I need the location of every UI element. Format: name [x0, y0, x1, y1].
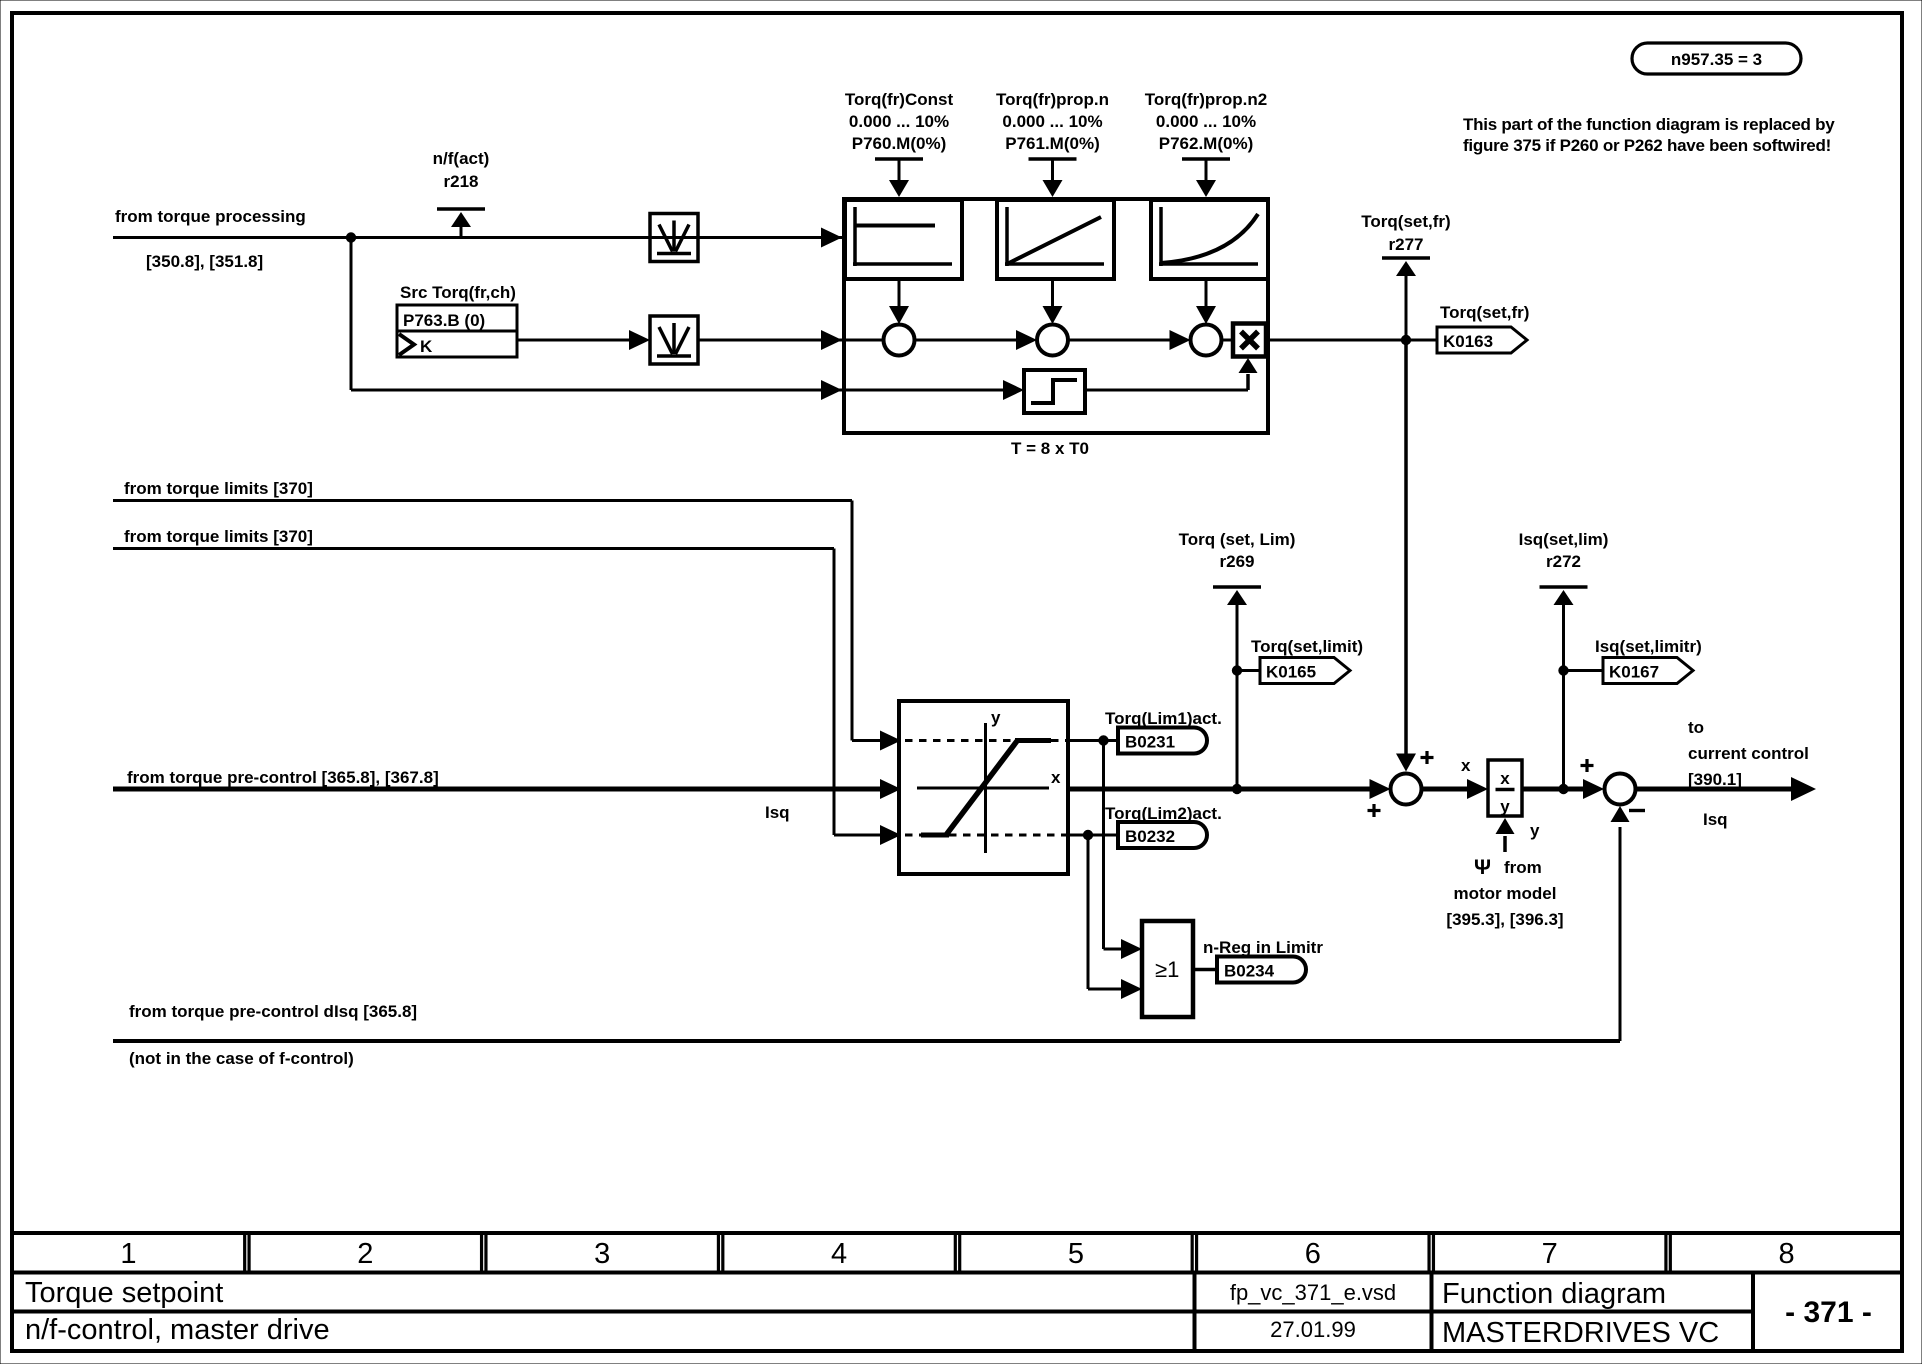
svg-text:P762.M(0%): P762.M(0%) [1159, 134, 1253, 153]
svg-text:P761.M(0%): P761.M(0%) [1005, 134, 1099, 153]
svg-text:from torque limits [370]: from torque limits [370] [124, 527, 313, 546]
svg-text:n/f(act): n/f(act) [433, 149, 490, 168]
svg-text:r269: r269 [1220, 552, 1255, 571]
svg-text:to: to [1688, 718, 1704, 737]
svg-text:r218: r218 [444, 172, 479, 191]
svg-text:x: x [1500, 769, 1510, 788]
svg-text:from torque pre-control [365.8: from torque pre-control [365.8], [367.8] [127, 768, 439, 787]
svg-text:P763.B (0): P763.B (0) [403, 311, 485, 330]
svg-text:Torq (set, Lim): Torq (set, Lim) [1179, 530, 1296, 549]
svg-text:K0165: K0165 [1266, 663, 1316, 682]
svg-text:B0232: B0232 [1125, 827, 1175, 846]
svg-text:[350.8], [351.8]: [350.8], [351.8] [146, 252, 263, 271]
svg-text:r277: r277 [1389, 235, 1424, 254]
svg-text:[390.1]: [390.1] [1688, 770, 1742, 789]
svg-text:from torque limits [370]: from torque limits [370] [124, 479, 313, 498]
svg-text:Ψ: Ψ [1474, 856, 1491, 879]
svg-text:K: K [420, 337, 433, 356]
svg-text:from torque pre-control dIsq [: from torque pre-control dIsq [365.8] [129, 1002, 417, 1021]
svg-text:5: 5 [1068, 1238, 1084, 1270]
svg-text:MASTERDRIVES VC: MASTERDRIVES VC [1442, 1317, 1719, 1349]
svg-text:Torq(set,limit): Torq(set,limit) [1251, 637, 1363, 656]
svg-text:0.000 ... 10%: 0.000 ... 10% [1002, 112, 1102, 131]
svg-text:fp_vc_371_e.vsd: fp_vc_371_e.vsd [1230, 1280, 1396, 1305]
svg-text:Isq: Isq [765, 803, 790, 822]
svg-text:y: y [1530, 821, 1540, 840]
svg-text:from torque processing: from torque processing [115, 207, 306, 226]
svg-text:n/f-control, master drive: n/f-control, master drive [25, 1314, 330, 1346]
svg-text:n-Reg in Limitr: n-Reg in Limitr [1203, 938, 1323, 957]
svg-text:Src Torq(fr,ch): Src Torq(fr,ch) [400, 283, 516, 302]
svg-text:3: 3 [594, 1238, 610, 1270]
svg-text:0.000 ... 10%: 0.000 ... 10% [849, 112, 949, 131]
svg-text:Isq(set,limitr): Isq(set,limitr) [1595, 637, 1702, 656]
svg-text:Isq: Isq [1703, 810, 1728, 829]
svg-text:- 371 -: - 371 - [1785, 1296, 1872, 1329]
svg-text:Torq(Lim1)act.: Torq(Lim1)act. [1105, 709, 1222, 728]
svg-text:from: from [1504, 858, 1542, 877]
svg-text:K0167: K0167 [1609, 663, 1659, 682]
svg-text:Torq(fr)prop.n2: Torq(fr)prop.n2 [1145, 90, 1267, 109]
svg-text:P760.M(0%): P760.M(0%) [852, 134, 946, 153]
svg-text:y: y [991, 708, 1001, 727]
svg-text:n957.35 = 3: n957.35 = 3 [1671, 50, 1762, 69]
svg-text:(not in the case of f-control): (not in the case of f-control) [129, 1049, 354, 1068]
svg-text:27.01.99: 27.01.99 [1270, 1317, 1356, 1342]
svg-text:This part of the function diag: This part of the function diagram is rep… [1463, 115, 1835, 134]
svg-text:Isq(set,lim): Isq(set,lim) [1519, 530, 1609, 549]
svg-text:Function diagram: Function diagram [1442, 1278, 1666, 1310]
svg-text:Torque setpoint: Torque setpoint [25, 1277, 223, 1309]
svg-text:Torq(fr)prop.n: Torq(fr)prop.n [996, 90, 1109, 109]
svg-text:x: x [1051, 768, 1061, 787]
svg-text:6: 6 [1305, 1238, 1321, 1270]
svg-text:B0234: B0234 [1224, 962, 1275, 981]
svg-text:K0163: K0163 [1443, 332, 1493, 351]
svg-text:4: 4 [831, 1238, 847, 1270]
svg-text:Torq(set,fr): Torq(set,fr) [1440, 303, 1529, 322]
svg-text:B0231: B0231 [1125, 733, 1175, 752]
svg-text:8: 8 [1778, 1238, 1794, 1270]
svg-text:x: x [1461, 756, 1471, 775]
svg-text:7: 7 [1542, 1238, 1558, 1270]
svg-text:motor model: motor model [1454, 884, 1557, 903]
svg-text:Torq(set,fr): Torq(set,fr) [1361, 212, 1450, 231]
svg-text:current control: current control [1688, 744, 1809, 763]
svg-text:2: 2 [357, 1238, 373, 1270]
svg-text:0.000 ... 10%: 0.000 ... 10% [1156, 112, 1256, 131]
svg-text:figure 375 if P260 or P262 hav: figure 375 if P260 or P262 have been sof… [1463, 136, 1831, 155]
svg-text:≥1: ≥1 [1155, 957, 1179, 982]
svg-text:r272: r272 [1546, 552, 1581, 571]
svg-text:y: y [1500, 797, 1510, 816]
svg-text:[395.3], [396.3]: [395.3], [396.3] [1446, 910, 1563, 929]
svg-text:Torq(fr)Const: Torq(fr)Const [845, 90, 954, 109]
svg-text:T = 8 x T0: T = 8 x T0 [1011, 439, 1089, 458]
svg-text:1: 1 [120, 1238, 136, 1270]
